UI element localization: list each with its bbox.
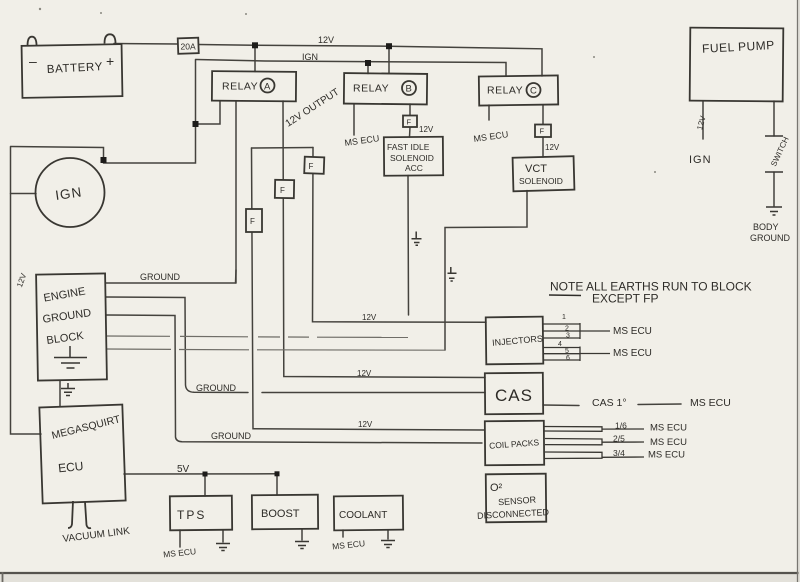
svg-text:RELAY: RELAY — [353, 83, 389, 95]
svg-text:MS ECU: MS ECU — [690, 397, 731, 409]
svg-text:COOLANT: COOLANT — [339, 510, 387, 521]
svg-text:12V: 12V — [318, 35, 334, 45]
svg-text:+: + — [106, 53, 114, 69]
svg-text:B: B — [406, 84, 412, 95]
svg-text:3/4: 3/4 — [613, 448, 625, 458]
svg-text:2: 2 — [565, 326, 569, 333]
svg-text:O²: O² — [490, 482, 503, 494]
svg-text:6: 6 — [566, 355, 570, 362]
svg-text:MS ECU: MS ECU — [650, 423, 687, 434]
svg-text:A: A — [264, 82, 271, 93]
svg-text:IGN: IGN — [689, 154, 712, 166]
svg-text:SOLENOID: SOLENOID — [519, 176, 563, 186]
svg-text:EXCEPT FP: EXCEPT FP — [592, 292, 658, 306]
svg-text:CAS: CAS — [495, 386, 533, 405]
svg-text:F: F — [407, 118, 412, 127]
svg-text:MS ECU: MS ECU — [648, 450, 685, 461]
svg-text:2/5: 2/5 — [613, 434, 625, 444]
svg-text:1/6: 1/6 — [615, 421, 627, 431]
svg-text:CAS 1°: CAS 1° — [592, 397, 627, 409]
svg-text:12V: 12V — [358, 420, 373, 429]
svg-text:GROUND: GROUND — [211, 431, 251, 441]
svg-text:GROUND: GROUND — [140, 272, 180, 282]
svg-text:4: 4 — [558, 341, 562, 348]
svg-text:SOLENOID: SOLENOID — [390, 153, 434, 163]
svg-text:F: F — [540, 127, 545, 136]
svg-text:ACC: ACC — [405, 163, 423, 173]
svg-text:GROUND: GROUND — [196, 383, 236, 393]
svg-text:BODY: BODY — [753, 222, 779, 232]
svg-text:IGN: IGN — [302, 52, 318, 62]
svg-text:3: 3 — [566, 333, 570, 340]
svg-text:12V: 12V — [357, 369, 372, 378]
svg-text:FAST IDLE: FAST IDLE — [387, 142, 430, 152]
svg-text:5: 5 — [565, 348, 569, 355]
svg-text:MS ECU: MS ECU — [613, 348, 652, 359]
svg-text:RELAY: RELAY — [222, 81, 258, 93]
svg-text:–: – — [29, 53, 37, 69]
svg-text:1: 1 — [562, 314, 566, 321]
svg-text:5V: 5V — [177, 464, 190, 475]
svg-text:12V: 12V — [362, 313, 377, 322]
svg-text:C: C — [530, 86, 537, 97]
svg-text:RELAY: RELAY — [487, 85, 523, 97]
svg-text:F: F — [280, 186, 285, 195]
svg-text:12V: 12V — [419, 125, 434, 134]
svg-text:F: F — [309, 162, 314, 171]
svg-text:TPS: TPS — [177, 508, 206, 522]
svg-text:ECU: ECU — [57, 459, 84, 476]
svg-text:MS ECU: MS ECU — [650, 437, 687, 448]
svg-text:MS ECU: MS ECU — [613, 326, 652, 337]
svg-text:GROUND: GROUND — [750, 233, 790, 243]
svg-text:BOOST: BOOST — [261, 508, 300, 520]
svg-text:VCT: VCT — [525, 163, 547, 175]
svg-text:F: F — [250, 217, 255, 226]
svg-text:12V: 12V — [545, 143, 560, 152]
svg-text:20A: 20A — [181, 42, 196, 52]
